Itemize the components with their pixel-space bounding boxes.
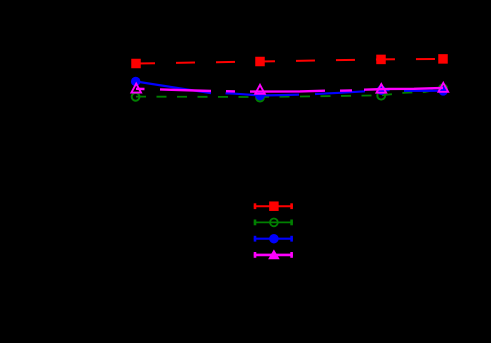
magenta solid series line segment a (136, 88, 145, 91)
legend entry green: errorbar line with caps and open circle (254, 219, 293, 227)
magenta open triangle marker 1 (131, 84, 141, 93)
red dashed series line (136, 59, 443, 64)
magenta solid series line segment c (226, 90, 235, 93)
blue solid series line segment c (315, 91, 365, 94)
green open circle marker 2 (256, 94, 264, 102)
legend entry magenta: errorbar line with caps and triangle (254, 249, 293, 259)
magenta solid series line segment d (250, 89, 325, 92)
red square marker 1 (131, 59, 141, 69)
magenta open triangle marker 2 (255, 85, 265, 94)
red square marker 4 (438, 54, 448, 64)
green open circle marker 4 (439, 84, 447, 92)
blue filled circle marker 3 (377, 85, 387, 95)
red square marker 2 (255, 57, 265, 67)
magenta solid series line segment b (160, 89, 211, 91)
blue solid series line segment a (136, 82, 211, 94)
green open circle marker 1 (132, 93, 140, 101)
blue solid series line segment b (226, 93, 300, 95)
blue filled circle marker 2 (255, 91, 265, 101)
green open circle marker 3 (377, 92, 385, 100)
magenta solid series line segment f (364, 88, 443, 90)
legend entry red: errorbar line with caps and square (254, 201, 293, 211)
magenta open triangle marker 3 (377, 84, 387, 93)
blue filled circle marker 1 (131, 77, 141, 87)
blue filled circle marker 4 (438, 86, 448, 96)
green dashed series line (136, 88, 443, 97)
magenta solid series line segment e (340, 89, 352, 92)
red square marker 3 (376, 55, 386, 65)
blue solid series line segment d (377, 89, 390, 91)
legend entry blue: errorbar line with caps and filled circle (254, 234, 293, 244)
magenta open triangle marker 4 (439, 83, 449, 92)
blue solid series line segment e (404, 90, 443, 92)
